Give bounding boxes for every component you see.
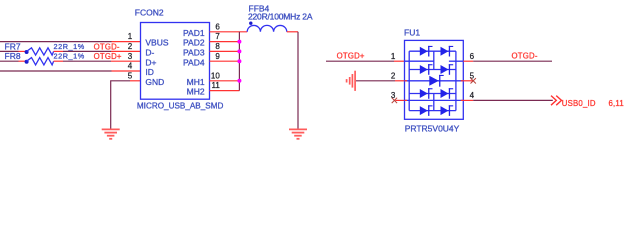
pin5 stub (dangling) bbox=[463, 80, 473, 82]
no-connect X pin5 bbox=[471, 78, 476, 83]
resistor FR8 bbox=[25, 58, 54, 65]
svg-text:PAD3: PAD3 bbox=[183, 48, 205, 58]
wire down to ground bbox=[297, 32, 299, 129]
svg-text:FR8: FR8 bbox=[5, 51, 21, 61]
junction pin7 bbox=[237, 40, 241, 44]
diode D4a bbox=[420, 105, 433, 116]
wire OTGD+ net to pin 3 bbox=[63, 60, 111, 62]
wire to FR8 left bbox=[0, 60, 19, 62]
connector FCON2 body bbox=[141, 23, 210, 100]
inductor FFB4 bbox=[247, 22, 287, 32]
wire FFB4 right lead bbox=[287, 31, 298, 33]
junction pin8 bbox=[237, 49, 241, 53]
svg-text:6: 6 bbox=[470, 52, 475, 61]
off-page connector chevrons bbox=[551, 96, 562, 106]
svg-text:2: 2 bbox=[128, 42, 133, 51]
svg-text:OTGD-: OTGD- bbox=[512, 51, 538, 60]
diode D1a bbox=[420, 46, 433, 57]
svg-text:10: 10 bbox=[211, 71, 220, 80]
wire pad stub pin8 bbox=[210, 50, 240, 52]
FU1 internal: row line 2 bbox=[409, 69, 456, 71]
FU1 red pin tips bbox=[405, 81, 464, 101]
wire pad stub pin9 bbox=[210, 60, 240, 62]
svg-text:1: 1 bbox=[391, 52, 396, 61]
svg-text:OTGD+: OTGD+ bbox=[337, 51, 365, 60]
FU1 internal: left bus bbox=[408, 51, 410, 110]
FU1 internal: pin3-pin4 row line bbox=[405, 99, 464, 101]
svg-text:1: 1 bbox=[128, 32, 133, 41]
svg-text:VBUS: VBUS bbox=[145, 38, 168, 48]
svg-text:22R_1%: 22R_1% bbox=[54, 52, 85, 61]
svg-text:OTGD+: OTGD+ bbox=[94, 52, 122, 61]
svg-text:PRTR5V0U4Y: PRTR5V0U4Y bbox=[405, 123, 460, 133]
diode D1b bbox=[441, 46, 454, 57]
svg-text:4: 4 bbox=[128, 62, 133, 71]
diode D4b bbox=[441, 105, 454, 116]
svg-text:PAD2: PAD2 bbox=[183, 38, 205, 48]
svg-text:22R_1%: 22R_1% bbox=[54, 42, 85, 51]
wire pad stub pin11 bbox=[210, 90, 240, 92]
no-connect X pin3 bbox=[392, 98, 397, 103]
svg-text:8: 8 bbox=[215, 42, 220, 51]
junction pin9 bbox=[237, 59, 241, 63]
diode D2b bbox=[441, 64, 454, 75]
resistor FR7 pin stub right bbox=[54, 50, 63, 52]
svg-text:220R/100MHz 2A: 220R/100MHz 2A bbox=[248, 11, 313, 21]
wire OTGD+ to FU1 pin1 bbox=[326, 60, 394, 62]
resistor FR7 pin stub left bbox=[19, 50, 26, 52]
pin3 stub (dangling) bbox=[396, 99, 405, 101]
wire OTGD- net to pin 2 bbox=[63, 50, 111, 52]
svg-text:GND: GND bbox=[145, 77, 164, 87]
svg-text:9: 9 bbox=[215, 52, 220, 61]
diode D3a bbox=[420, 88, 433, 99]
svg-text:2: 2 bbox=[391, 72, 396, 81]
svg-text:6,11: 6,11 bbox=[609, 99, 624, 108]
svg-text:4: 4 bbox=[470, 91, 475, 100]
svg-text:OTGD-: OTGD- bbox=[94, 42, 120, 51]
svg-text:7: 7 bbox=[215, 32, 220, 41]
svg-text:11: 11 bbox=[211, 81, 220, 90]
wire FU1 pin6 OTGD- bbox=[463, 60, 473, 62]
diode D2a bbox=[420, 64, 433, 75]
FU1 internal: mid vertical top bbox=[433, 51, 435, 69]
wire pad stub pin7 bbox=[210, 41, 240, 43]
junction pin10 bbox=[237, 79, 241, 83]
ground (center) bbox=[289, 129, 307, 138]
ESD protection FU1 body bbox=[405, 40, 464, 119]
FU1 internal: pin1 row line bbox=[405, 60, 434, 62]
FU1 internal: pin6 row line bbox=[449, 60, 463, 62]
FU1 internal: row line 4 bbox=[409, 110, 456, 112]
FU1 internal: pin2-pin5 row line bbox=[405, 80, 464, 82]
FU1 internal: row line 3 bbox=[409, 93, 456, 95]
FU1 internal: right bus bbox=[455, 51, 457, 110]
diode center (zener) bbox=[429, 75, 443, 87]
svg-text:3: 3 bbox=[128, 52, 133, 61]
FU1 internal: mid vertical bottom bbox=[433, 94, 435, 111]
svg-text:PAD1: PAD1 bbox=[183, 28, 205, 38]
svg-text:3: 3 bbox=[391, 91, 396, 100]
wire pad bus vertical bbox=[238, 32, 240, 91]
wire GND pin5 to ground bbox=[111, 81, 130, 129]
wire ground to FU1 pin2 bbox=[356, 80, 395, 82]
svg-text:FU1: FU1 bbox=[404, 28, 420, 38]
ground (FU1 pin2, left-pointing) bbox=[347, 71, 356, 91]
wire pin6 stub to FFB4 bbox=[210, 31, 248, 33]
wire FU1 pin4 USB0_ID bbox=[463, 99, 473, 101]
svg-text:MH2: MH2 bbox=[187, 87, 205, 97]
wire VBUS net row1 bbox=[0, 41, 112, 43]
wire red segment to pin 1 bbox=[112, 41, 141, 43]
FU1 internal: row line 1 bbox=[409, 50, 456, 52]
svg-text:PAD4: PAD4 bbox=[183, 57, 205, 67]
wire pad stub pin10 bbox=[210, 80, 240, 82]
svg-text:D-: D- bbox=[145, 48, 154, 58]
svg-text:MICRO_USB_AB_SMD: MICRO_USB_AB_SMD bbox=[137, 100, 224, 110]
svg-text:ID: ID bbox=[145, 67, 154, 77]
svg-text:D+: D+ bbox=[145, 57, 156, 67]
resistor FR8 pin stub left bbox=[19, 60, 26, 62]
ground (left) bbox=[102, 129, 120, 138]
svg-text:FR7: FR7 bbox=[5, 41, 21, 51]
wire to FR7 left bbox=[0, 50, 19, 52]
svg-text:MH1: MH1 bbox=[187, 77, 205, 87]
svg-text:FCON2: FCON2 bbox=[135, 8, 164, 18]
resistor FR8 pin stub right bbox=[54, 60, 63, 62]
resistor FR7 bbox=[25, 48, 54, 55]
svg-text:5: 5 bbox=[128, 71, 133, 80]
svg-text:6: 6 bbox=[215, 22, 220, 31]
wire ID net row4 bbox=[0, 70, 112, 72]
diode D3b bbox=[441, 88, 454, 99]
svg-text:USB0_ID: USB0_ID bbox=[562, 99, 596, 108]
